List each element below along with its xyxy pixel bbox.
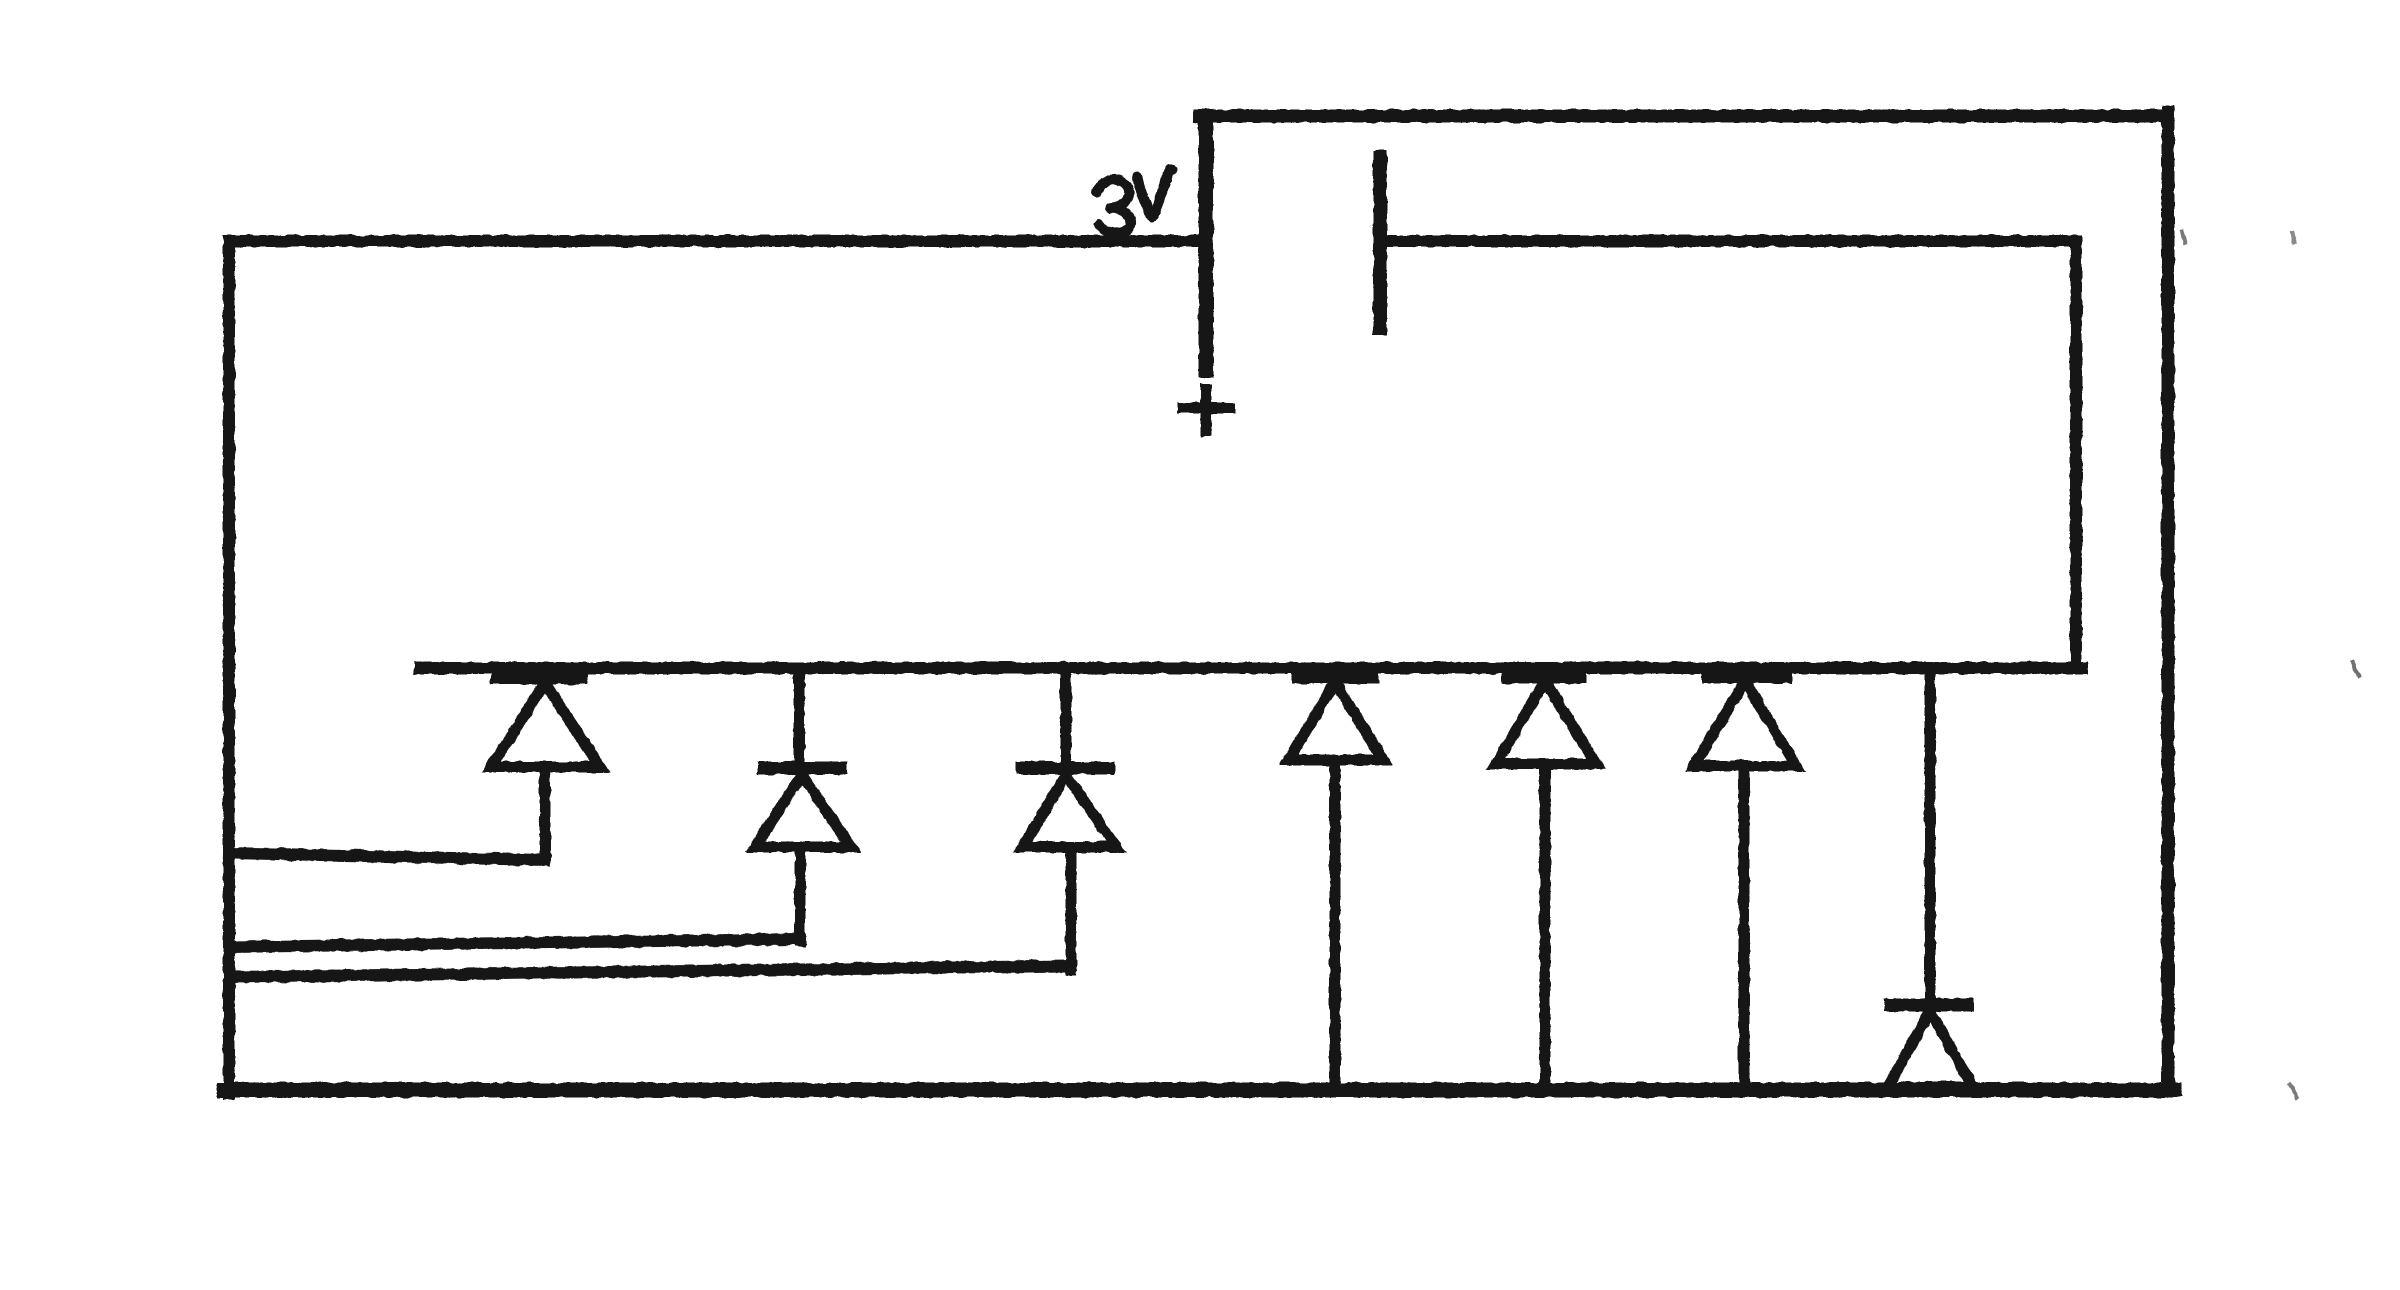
diode D3 triangle bbox=[1023, 775, 1116, 847]
diode D4 anode lead down to bottom wire bbox=[1330, 760, 1341, 1090]
wire: outer bottom horizontal bbox=[224, 1083, 2174, 1098]
diode D2 cathode bar bbox=[764, 762, 841, 775]
diode D2 bbox=[755, 668, 851, 941]
stray pen mark right margin upper bbox=[2182, 231, 2185, 243]
diode D7 bbox=[1888, 668, 1973, 1087]
diode D3 cathode lead from bus bbox=[1061, 668, 1072, 764]
diode D4 bbox=[1289, 676, 1383, 1090]
wire: inner top horizontal from left vertical to battery positive plate bbox=[229, 235, 1200, 247]
diode D3 anode lead down bbox=[1066, 847, 1077, 970]
diode D1 triangle bbox=[491, 683, 600, 767]
diode D7 cathode lead from bus bbox=[1925, 668, 1936, 1000]
diode D1 bbox=[491, 677, 600, 860]
diode D3 cathode bar bbox=[1022, 762, 1108, 775]
wire: inner right vertical from battery wire down to bus bbox=[2070, 241, 2082, 668]
diode D3 bbox=[1022, 668, 1116, 970]
diode D4 triangle bbox=[1289, 682, 1383, 760]
diode D7 cathode bar bbox=[1890, 999, 1967, 1012]
wire: outer right vertical bbox=[2162, 112, 2175, 1090]
wire: from left vertical to D3 anode bbox=[229, 966, 1071, 977]
diode D1 anode lead down bbox=[540, 767, 551, 860]
diode D5 triangle bbox=[1496, 681, 1596, 764]
label 3V bbox=[1097, 169, 1172, 233]
wire: outer top horizontal from battery positive plate to top-right corner bbox=[1200, 110, 2168, 123]
battery B1 plus sign bbox=[1183, 389, 1230, 431]
stray pen mark right of bus bbox=[2352, 662, 2359, 676]
diode D5 anode lead down to bottom wire bbox=[1540, 764, 1551, 1090]
diode D1 cathode bar bbox=[498, 670, 580, 685]
wire: horizontal bus (cathode rail) bbox=[420, 662, 2082, 674]
diode D5 bbox=[1496, 676, 1596, 1090]
diode D2 cathode lead from bus bbox=[794, 668, 805, 764]
diode D6 bbox=[1694, 676, 1796, 1090]
wire: from left vertical to D2 anode bbox=[229, 939, 800, 947]
diode D6 triangle bbox=[1694, 681, 1796, 766]
battery B1 negative plate (short) bbox=[1373, 157, 1387, 328]
diode D2 anode lead down bbox=[795, 847, 806, 941]
diode D4 cathode bar bbox=[1299, 669, 1371, 684]
diode D2 triangle bbox=[755, 775, 851, 847]
diode D6 anode lead down to bottom wire bbox=[1739, 766, 1750, 1090]
wire: from left vertical to D1 anode bbox=[229, 853, 545, 860]
diode D6 cathode bar bbox=[1709, 669, 1784, 684]
diode D5 cathode bar bbox=[1509, 669, 1579, 684]
diode D7 triangle bbox=[1888, 1011, 1973, 1087]
wire: from battery negative plate right to inner-right vertical bbox=[1386, 235, 2076, 247]
battery B1 positive plate (long) bbox=[1199, 116, 1214, 370]
stray pen mark bottom right bbox=[2290, 1084, 2296, 1097]
stray pen mark right margin upper second bbox=[2292, 232, 2294, 242]
wire: outer left vertical bbox=[223, 241, 235, 1094]
